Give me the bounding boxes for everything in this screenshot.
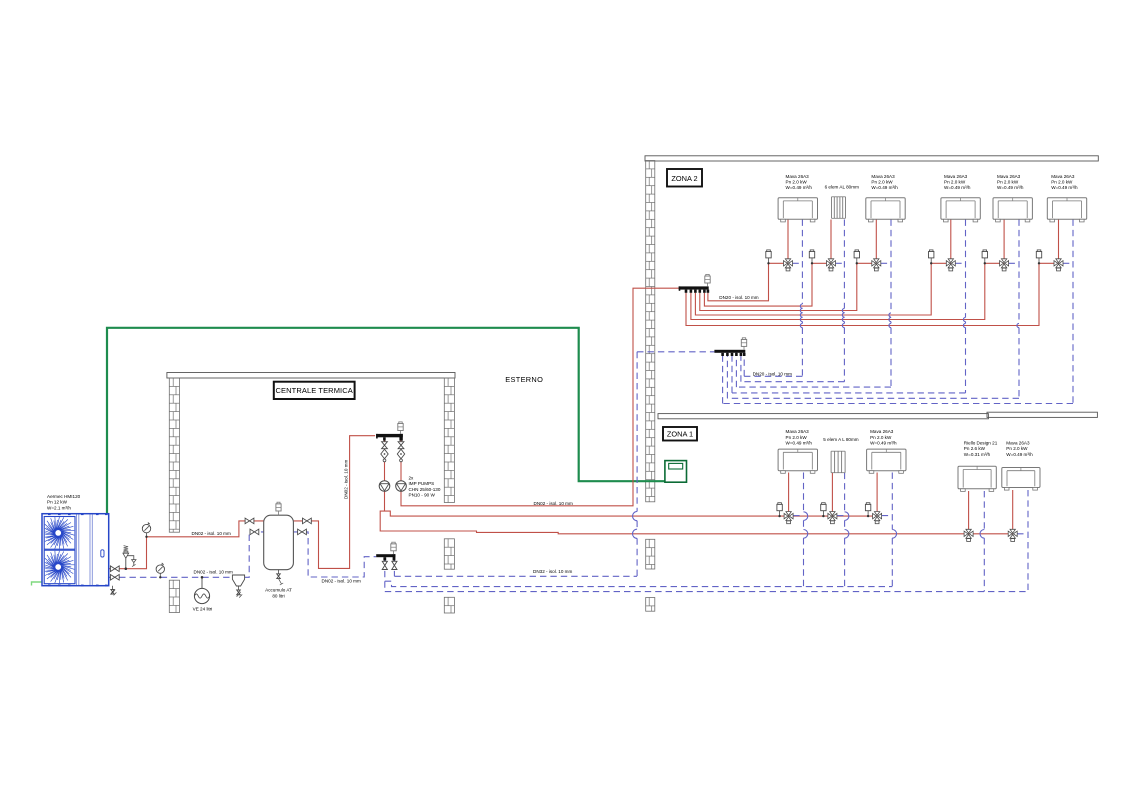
radiator zone2 Mava 26A3 #1	[778, 198, 817, 222]
sensor on return manifold	[391, 542, 396, 554]
pipe: red zone1 radiator 2 supply drop	[831, 473, 833, 512]
svg-text:6 elem AL 80mm: 6 elem AL 80mm	[825, 185, 859, 190]
pipe: red zone1 feed from left pump with two trunks	[380, 491, 1013, 534]
svg-text:80 litri: 80 litri	[272, 594, 284, 599]
label zone2 radiator 1 Mava 26A3	[786, 174, 813, 190]
pressure gauge G2 on blue return	[156, 563, 164, 579]
pipe: blue zone2 radiator 1 return to manifold	[744, 220, 802, 377]
pipe: blue zone2 radiator 5 return to manifold	[727, 220, 1019, 399]
pipe: red zone1 radiator 3 supply drop	[876, 473, 878, 512]
svg-text:W=0.49 m³/h: W=0.49 m³/h	[871, 185, 898, 190]
pipe: blue return manifold right stub to zone2 return manifold	[394, 352, 714, 577]
wire: light green stub at heat pump bottom left	[32, 582, 45, 586]
svg-text:Aermec HMI120: Aermec HMI120	[47, 494, 81, 499]
label box ZONA 2	[667, 169, 702, 187]
pipe: red zone2 branch 5 manifold to radiator valve	[691, 263, 1004, 319]
radiator zone2 Mava 26A3 #5	[993, 198, 1032, 222]
dirt filter on blue return	[232, 575, 244, 598]
svg-text:DN02 - isol. 10 mm: DN02 - isol. 10 mm	[192, 531, 231, 536]
svg-text:Mava 26A3: Mava 26A3	[871, 174, 895, 179]
pipe label DN02 zone2 feed	[534, 501, 573, 506]
wall: zona2/zona1 left brick wall upper segment	[646, 161, 655, 502]
radiator zone1 aluminium 5 elements	[831, 451, 845, 473]
radiator valve zone1 radiator 2	[828, 512, 837, 524]
pipe: red zone2 branch 6 manifold to radiator valve	[686, 263, 1059, 325]
pipe: red zone2 radiator 4 supply drop	[950, 220, 952, 260]
svg-text:Accumulo AT: Accumulo AT	[265, 588, 292, 593]
pipe: blue zone2 radiator 4 return to manifold	[732, 220, 966, 393]
label zone1 radiator 1 Mava 26A3	[786, 429, 813, 445]
pipe: blue zone2 radiator 3 return to manifold	[736, 220, 891, 388]
thermostatic head zone2 radiator 3	[854, 250, 859, 265]
svg-text:W=2.1 m³/h: W=2.1 m³/h	[47, 505, 71, 510]
pipe: red pump group right stub	[400, 440, 402, 481]
pipe: red zone1 radiator 5 supply drop	[1012, 490, 1014, 530]
svg-text:Mava 26A3: Mava 26A3	[997, 174, 1021, 179]
wall: centrale termica right brick wall middle segment	[444, 539, 454, 569]
pipe: red zone2 branch 3 manifold to radiator valve	[700, 263, 877, 310]
pipe: blue zone2 radiator 6 return to manifold	[723, 220, 1073, 404]
radiator valve zone2 radiator 5	[1000, 259, 1009, 271]
wall: zona1 left brick wall lower segment	[646, 598, 655, 612]
wire: green thermostat cable from heat pump to chronothermostat	[107, 328, 687, 514]
svg-text:Mava 26A3: Mava 26A3	[786, 174, 810, 179]
radiator zone2 Mava 26A3 #6	[1047, 198, 1086, 222]
svg-text:Mava 26A3: Mava 26A3	[944, 174, 968, 179]
expansion vessel VE 24 litri	[194, 576, 209, 604]
label heat pump Aermec HMI120	[47, 494, 81, 510]
pipe: blue zone1 radiator 5 return riser	[1017, 490, 1028, 592]
svg-text:VE 24 litri: VE 24 litri	[193, 607, 213, 612]
svg-text:Pn 2.0 kW: Pn 2.0 kW	[997, 180, 1019, 185]
wall: centrale termica right brick wall lower segment	[444, 597, 454, 613]
sensor on zone2 supply manifold	[705, 274, 710, 286]
svg-text:DN02 - isol. 10 mm: DN02 - isol. 10 mm	[534, 501, 573, 506]
wall: centrale termica right brick wall upper segment	[444, 378, 454, 503]
label zone1 radiator 2 aluminium	[823, 437, 858, 442]
label zone1 radiator 5 Mava 26A3	[1006, 440, 1033, 456]
valve on return manifold right stub	[392, 561, 397, 569]
radiator valve zone2 radiator 1	[784, 259, 793, 271]
pipe: blue zone1 radiator 2 return riser	[837, 473, 849, 587]
svg-text:Pn 2.0 kW: Pn 2.0 kW	[1006, 446, 1028, 451]
wall: centrale termica left brick wall upper segment	[169, 378, 179, 532]
svg-text:Pn 2.0 kW: Pn 2.0 kW	[871, 180, 893, 185]
radiator valve zone1 radiator 5	[1008, 529, 1017, 541]
valve V6 tank blue inlet	[298, 529, 307, 535]
radiator valve zone2 radiator 4	[946, 259, 955, 271]
svg-text:Pn 2.0 kW: Pn 2.0 kW	[786, 180, 808, 185]
pipe label DN02 near heat pump return	[194, 570, 233, 575]
svg-text:PN10 - 90 W: PN10 - 90 W	[409, 493, 436, 498]
pipe: blue zone1 radiator 3 return riser	[882, 473, 897, 587]
label zone2 radiator 2 aluminium	[825, 185, 859, 190]
svg-text:2x: 2x	[409, 476, 415, 481]
pipe: blue zone2 radiator 2 return to manifold	[741, 220, 845, 382]
thermostatic head zone2 radiator 1	[766, 250, 771, 265]
pipe label DN20 zone2 supply manifold	[719, 295, 758, 300]
pipe: blue zone1 radiator 1 return riser	[793, 473, 808, 587]
label zone2 radiator 6 Mava 26A3	[1051, 174, 1078, 190]
pipe: red zone2 branch 4 manifold to radiator valve	[695, 263, 950, 315]
valve on return manifold left stub	[382, 561, 387, 569]
label ESTERNO	[505, 375, 543, 384]
pipe: red zone2 branch 2 manifold to radiator valve	[704, 263, 831, 306]
radiator zone2 aluminium 6 elements	[832, 197, 846, 219]
pipe: blue return manifold left stub zone1 trunks	[385, 561, 1028, 592]
radiator valve zone2 radiator 3	[872, 259, 881, 271]
svg-text:Mava 26A3: Mava 26A3	[786, 429, 810, 434]
label zone2 radiator 3 Mava 26A3	[871, 174, 898, 190]
chronothermostat (green box)	[665, 461, 687, 483]
svg-text:W=0.49 m³/h: W=0.49 m³/h	[944, 185, 971, 190]
thermostatic head zone2 radiator 4	[929, 250, 934, 265]
svg-text:ZONA 1: ZONA 1	[667, 430, 693, 439]
valve V1 on red supply at heat pump outlet	[110, 566, 119, 572]
pump P1 IMP PUMPS CHN 25/60-130	[379, 481, 390, 492]
buffer tank Accumulo AT 80 litri	[264, 502, 294, 585]
pipe: red zone2 radiator 1 supply drop	[787, 220, 789, 260]
wall: zona1/zona2 divider bar left segment	[658, 414, 988, 419]
radiator valve zone2 radiator 6	[1054, 259, 1063, 271]
wall: centrale termica left brick wall lower segment	[169, 580, 179, 612]
pipe: red pump group left stub	[384, 440, 386, 481]
return manifold (black) in centrale termica	[376, 554, 395, 560]
pipe: red zone2 feed from right pump up to zone2 manifold	[401, 288, 679, 506]
svg-text:ESTERNO: ESTERNO	[505, 375, 543, 384]
pump P2 IMP PUMPS CHN 25/60-130	[396, 481, 407, 492]
sensor on zone2 return manifold	[741, 338, 746, 350]
zone2 return manifold (black) with 6 inlets	[714, 350, 745, 356]
svg-text:Pn 2.0 kW: Pn 2.0 kW	[786, 435, 808, 440]
svg-text:W=0.49 m³/h: W=0.49 m³/h	[1006, 452, 1033, 457]
pipe: red zone2 radiator 3 supply drop	[875, 220, 877, 260]
label zone1 radiator 4 Riello Design 21	[964, 440, 998, 456]
svg-text:Mava 26A3: Mava 26A3	[1006, 440, 1030, 445]
svg-text:Pn 2.0 kW: Pn 2.0 kW	[870, 435, 892, 440]
radiator valve zone2 radiator 2	[827, 259, 836, 271]
radiator zone1 Mava 26A3 #1	[778, 449, 817, 473]
svg-text:5 elem A L 80mm: 5 elem A L 80mm	[823, 437, 858, 442]
radiator valve zone1 radiator 4	[964, 529, 973, 541]
svg-text:W=0.49 m³/h: W=0.49 m³/h	[786, 185, 813, 190]
wall: zona2 top wall bar	[645, 156, 1098, 161]
pipe label DN32 zone2 return	[533, 569, 572, 574]
pipe: blue return heat pump to buffer tank	[109, 532, 264, 577]
pipe: blue zone1 radiator 4 return riser	[980, 491, 984, 592]
label box ZONA 1	[663, 427, 697, 441]
pipe: blue return tank right to return manifold	[293, 532, 376, 577]
svg-text:Riello Design 21: Riello Design 21	[964, 440, 998, 445]
radiator zone1 Riello Design 21	[958, 466, 996, 491]
thermostatic head zone2 radiator 5	[982, 250, 987, 265]
label zone2 radiator 4 Mava 26A3	[944, 174, 971, 190]
svg-text:IMP PUMPS: IMP PUMPS	[409, 481, 435, 486]
pipe: red zone1 radiator 4 supply drop	[968, 491, 970, 530]
pipe label DN02 vertical riser	[344, 460, 349, 499]
safety valve group with spring and discharge funnel	[123, 546, 136, 570]
wall: centrale termica top wall bar	[167, 373, 455, 379]
svg-text:Pn 2.6 kW: Pn 2.6 kW	[964, 446, 986, 451]
thermostatic head zone2 radiator 2	[809, 250, 814, 265]
thermostatic head zone1 radiator 1	[777, 503, 782, 518]
svg-text:DN32 - isol. 10 mm: DN32 - isol. 10 mm	[533, 569, 572, 574]
svg-text:Pn 2.0 kW: Pn 2.0 kW	[944, 180, 966, 185]
pipe: red zone2 radiator 6 supply drop	[1058, 220, 1060, 260]
pipe label DN02 tank return bottom	[322, 578, 361, 583]
thermostatic head zone2 radiator 6	[1036, 250, 1041, 265]
svg-text:W=0.49 m³/h: W=0.49 m³/h	[997, 185, 1024, 190]
svg-text:ZONA 2: ZONA 2	[671, 174, 697, 183]
svg-text:DN20 - isol. 10 mm: DN20 - isol. 10 mm	[753, 372, 792, 377]
shutoff valve and check valve on right pump stub	[397, 442, 404, 462]
svg-text:Mava 26A3: Mava 26A3	[1051, 174, 1075, 179]
valve V4 tank blue outlet	[250, 529, 259, 535]
pipe label DN02 near tank supply	[192, 531, 231, 536]
valve V3 tank red inlet	[245, 518, 254, 524]
pipe: red zone2 radiator 5 supply drop	[1003, 220, 1005, 260]
svg-text:Pn 12 kW: Pn 12 kW	[47, 500, 68, 505]
pipe: red zone2 radiator 2 supply drop	[830, 220, 832, 260]
radiator valve zone1 radiator 3	[873, 512, 882, 524]
wall: zona1/zona2 divider bar right segment	[987, 412, 1097, 417]
pressure gauge G1 on red supply	[142, 522, 150, 538]
zone2 supply manifold (black) with 6 outlets	[679, 286, 709, 292]
thermostatic head zone1 radiator 2	[821, 503, 826, 518]
label box CENTRALE TERMICA	[274, 382, 355, 399]
svg-text:CHN 25/60-130: CHN 25/60-130	[409, 487, 441, 492]
wall: zona1 left brick wall middle segment	[646, 539, 655, 569]
radiator zone1 Mava 26A3 #3	[867, 449, 906, 473]
svg-text:W=0.49 m³/h: W=0.49 m³/h	[1051, 185, 1078, 190]
supply manifold (black) in centrale termica	[376, 434, 403, 441]
heat pump Aermec HMI120	[42, 513, 109, 586]
shutoff valve and check valve on left pump stub	[381, 442, 388, 462]
pipe: red zone1 radiator 1 supply drop	[788, 473, 790, 512]
label pumps 2x IMP PUMPS	[409, 476, 441, 498]
radiator zone2 Mava 26A3 #3	[866, 198, 905, 222]
svg-text:DN02 - isol. 10 mm: DN02 - isol. 10 mm	[194, 570, 233, 575]
svg-text:W=0.49 m³/h: W=0.49 m³/h	[786, 441, 813, 446]
drain cock under heat pump	[111, 586, 117, 596]
pipe: red supply tank to pump manifold riser	[293, 436, 375, 569]
valve V2 on blue return at heat pump inlet	[110, 575, 119, 581]
svg-text:Mava 26A3: Mava 26A3	[870, 429, 894, 434]
svg-text:W=0.31 m³/h: W=0.31 m³/h	[964, 452, 991, 457]
thermostatic head zone1 radiator 3	[865, 503, 870, 518]
svg-text:W=0.49 m³/h: W=0.49 m³/h	[870, 441, 897, 446]
svg-text:CENTRALE TERMICA: CENTRALE TERMICA	[276, 386, 353, 395]
label expansion vessel VE 24 litri	[193, 607, 213, 612]
svg-text:Pn 2.0 kW: Pn 2.0 kW	[1051, 180, 1073, 185]
pipe: red supply heat pump to buffer tank	[109, 521, 264, 569]
pipe: red zone2 branch 1 manifold to radiator valve	[708, 263, 788, 301]
svg-text:DN02 - isol. 10 mm: DN02 - isol. 10 mm	[344, 460, 349, 499]
sensor on supply manifold	[398, 422, 403, 434]
svg-text:DN02 - isol. 10 mm: DN02 - isol. 10 mm	[322, 578, 361, 583]
label zone1 radiator 3 Mava 26A3	[870, 429, 897, 445]
label buffer tank Accumulo AT 80 litri	[265, 588, 292, 599]
pipe label DN20 zone2 return manifold	[753, 372, 792, 377]
radiator valve zone1 radiator 1	[784, 512, 793, 524]
radiator zone2 Mava 26A3 #4	[941, 198, 980, 222]
radiator zone1 Mava 26A3 #5	[1002, 468, 1040, 491]
svg-text:DN20 - isol. 10 mm: DN20 - isol. 10 mm	[719, 295, 758, 300]
valve V5 tank red outlet	[303, 518, 312, 524]
label zone2 radiator 5 Mava 26A3	[997, 174, 1024, 190]
